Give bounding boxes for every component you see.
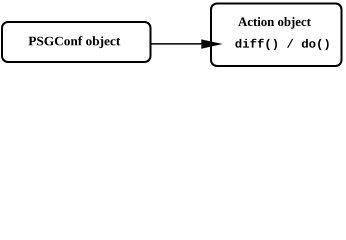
box PSGConf object bbox=[2, 22, 151, 62]
wire arrow shaft bbox=[152, 43, 204, 45]
arrowhead bbox=[201, 39, 222, 48]
label diff() / do() bbox=[235, 39, 328, 50]
label PSGConf object bbox=[29, 36, 121, 48]
box Action object bbox=[211, 4, 342, 67]
label Action object bbox=[238, 17, 311, 29]
